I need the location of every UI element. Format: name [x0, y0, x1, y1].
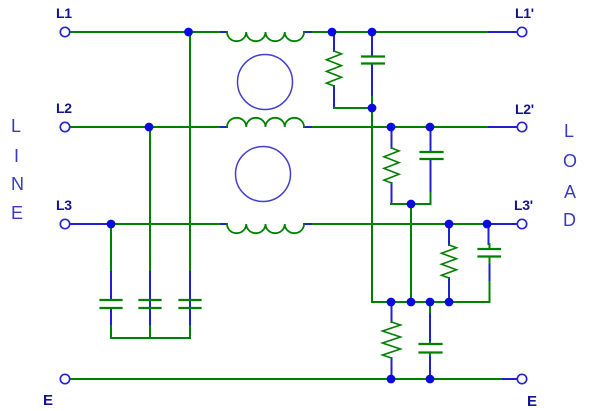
svg-text:D: D	[563, 210, 576, 230]
junction dot L1-CY1	[184, 28, 193, 37]
capacitor C2 (L2 to star)	[421, 127, 443, 204]
terminal L3	[60, 219, 69, 228]
junction dot L3-C3	[483, 220, 492, 229]
capacitor C1 (L1 to star)	[362, 32, 384, 108]
wire L2 line	[70, 126, 489, 128]
resistor R2 (L2 to star)	[384, 127, 399, 204]
inductor L1 choke winding	[221, 32, 311, 41]
wire L3 left lead (blue)	[70, 223, 111, 225]
svg-text:L1: L1	[56, 5, 72, 21]
capacitor CY2 (L2 Y-cap)	[140, 272, 161, 324]
terminal L2	[60, 122, 69, 131]
svg-text:L: L	[564, 121, 574, 141]
svg-text:E: E	[11, 203, 23, 223]
junction dot bus-R3	[445, 298, 454, 307]
choke core circle CM1	[238, 55, 293, 110]
terminal L1	[60, 27, 69, 36]
terminal E left	[60, 374, 69, 383]
junction dot bus-RC2	[407, 298, 416, 307]
junction dot bus-R4	[387, 298, 396, 307]
svg-text:L2': L2'	[515, 101, 534, 117]
capacitor CY1 (L1 Y-cap)	[180, 272, 201, 324]
terminal L2 prime	[517, 122, 526, 131]
wire R1-C1 bottom bar	[334, 107, 372, 109]
capacitor CY3 (L3 Y-cap)	[101, 272, 122, 324]
capacitor C3 (L3 to star)	[479, 226, 501, 302]
wire vertical from L2 to CY2	[149, 127, 151, 272]
junction dot RC2 bottom	[407, 200, 416, 209]
wire L3 right lead (blue)	[491, 223, 517, 225]
junction dot L3-R3	[445, 220, 454, 229]
junction dot E-R4	[387, 375, 396, 384]
svg-text:L3: L3	[56, 197, 72, 213]
junction dot L2-R2	[387, 123, 396, 132]
side caption LINE	[11, 116, 24, 223]
wire vertical from L1 to CY1	[189, 32, 191, 272]
svg-text:E: E	[527, 393, 537, 410]
svg-text:L: L	[11, 116, 21, 136]
svg-text:I: I	[14, 146, 19, 166]
wire E right lead (blue)	[503, 378, 517, 380]
wire E line	[70, 378, 503, 380]
junction dot E-C4	[426, 375, 435, 384]
junction dot L2-CY2	[145, 123, 154, 132]
capacitor C4 (star to earth)	[420, 302, 442, 379]
svg-text:E: E	[43, 392, 53, 409]
svg-text:A: A	[564, 182, 576, 202]
wire vertical from L3 to CY3	[110, 224, 112, 272]
resistor R3 (L3 to star)	[442, 224, 457, 302]
junction dot bus-C4	[426, 298, 435, 307]
wire Y-cap bottom bar	[111, 325, 190, 338]
wire L1 line	[70, 31, 489, 33]
wire L1 right lead (blue)	[489, 31, 517, 33]
wire R2-C2 bottom bar	[391, 203, 430, 205]
terminal E right	[517, 374, 526, 383]
junction dot L1-R1	[328, 28, 337, 37]
wire L3 line	[111, 223, 491, 225]
svg-text:O: O	[563, 151, 577, 171]
svg-text:L3': L3'	[514, 197, 533, 213]
resistor R4 (star to earth)	[383, 302, 401, 379]
svg-text:L1': L1'	[515, 5, 534, 21]
inductor L3 choke winding	[221, 224, 311, 233]
wire star riser from RC1	[371, 108, 373, 302]
wire L2 right lead (blue)	[489, 126, 517, 128]
terminal L1 prime	[517, 27, 526, 36]
choke core circle CM2	[236, 147, 291, 202]
resistor R1 (L1 to star)	[327, 32, 342, 108]
terminal L3 prime	[517, 219, 526, 228]
inductor L2 choke winding	[221, 118, 311, 127]
junction dot L1-C1	[368, 28, 377, 37]
wire star riser from RC2	[410, 204, 412, 302]
junction dot L2-C2	[426, 123, 435, 132]
svg-text:L2: L2	[56, 100, 72, 116]
side caption LOAD	[563, 121, 577, 230]
junction dot L3-CY3	[107, 220, 116, 229]
wire star bus	[372, 301, 490, 303]
svg-text:N: N	[11, 174, 24, 194]
junction dot RC1 bottom	[368, 104, 377, 113]
